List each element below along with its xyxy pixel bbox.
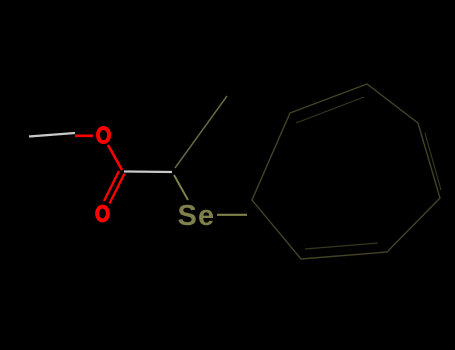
svg-text:Se: Se	[178, 200, 216, 232]
